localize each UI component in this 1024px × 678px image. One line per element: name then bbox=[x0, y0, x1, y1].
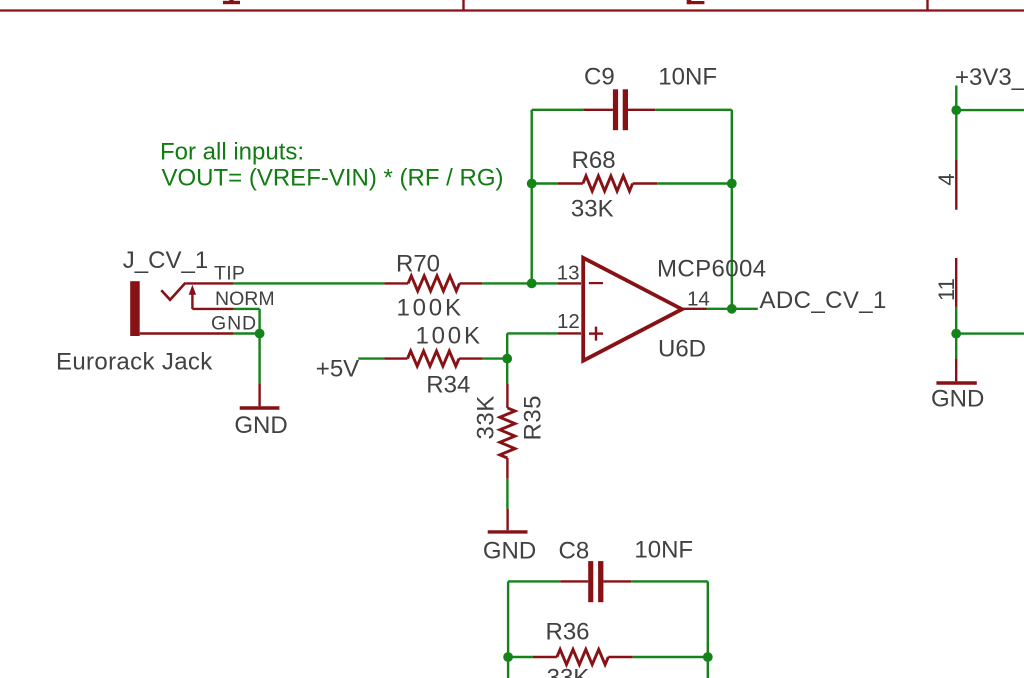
svg-text:12: 12 bbox=[557, 310, 580, 333]
resistor R35 top lead bbox=[506, 384, 508, 408]
wire to op-amp plus input bbox=[507, 332, 557, 334]
jack J_CV_1 norm arrow bbox=[189, 285, 196, 309]
op-amp pin 13 stub bbox=[557, 282, 581, 284]
sheet frame column divider tick 2 bbox=[926, 0, 928, 11]
svg-text:GND: GND bbox=[483, 538, 536, 565]
resistor R34 right lead bbox=[459, 357, 482, 359]
sheet frame column number 1 bbox=[223, 0, 240, 4]
resistor R68 right lead bbox=[633, 182, 658, 184]
resistor R35 bbox=[500, 408, 515, 458]
svg-text:For all inputs:: For all inputs: bbox=[160, 138, 304, 165]
wire C8 row right bbox=[631, 580, 708, 582]
junction node K bbox=[951, 329, 961, 339]
wire jack GND net bbox=[233, 332, 260, 334]
resistor R35 bottom lead bbox=[506, 458, 508, 479]
resistor R70 left lead bbox=[384, 282, 408, 284]
wire +3V3 vertical bbox=[955, 86, 957, 160]
svg-text:33K: 33K bbox=[473, 395, 500, 439]
svg-text:4: 4 bbox=[934, 173, 959, 185]
op-amp non-inverting input plus symbol bbox=[589, 327, 603, 341]
svg-text:R34: R34 bbox=[426, 371, 470, 398]
wire TIP net bbox=[233, 282, 384, 284]
svg-text:R70: R70 bbox=[396, 251, 440, 278]
svg-text:VOUT= (VREF-VIN) * (RF / RG): VOUT= (VREF-VIN) * (RF / RG) bbox=[162, 164, 504, 191]
junction node D bbox=[727, 304, 737, 314]
resistor R34 left lead bbox=[384, 357, 407, 359]
svg-text:NORM: NORM bbox=[215, 288, 275, 310]
IC power pin 4 bbox=[955, 160, 957, 210]
wire R34 to node F bbox=[482, 357, 507, 359]
junction node E bbox=[255, 329, 265, 339]
wire node E down bbox=[258, 334, 260, 384]
wire right vertical of second loop bbox=[707, 581, 709, 678]
wire +5V net bbox=[358, 357, 384, 359]
ground GND3 stub bbox=[955, 359, 957, 382]
svg-text:Eurorack Jack: Eurorack Jack bbox=[56, 349, 213, 376]
svg-text:R36: R36 bbox=[546, 619, 590, 646]
svg-text:10NF: 10NF bbox=[634, 537, 693, 564]
wire right vertical of feedback loop bbox=[731, 110, 733, 309]
op-amp pin 12 stub bbox=[557, 332, 581, 334]
ground GND1 bar bbox=[240, 406, 280, 409]
wire R68 row right bbox=[657, 182, 732, 184]
svg-text:+5V: +5V bbox=[316, 355, 359, 382]
wire node K down bbox=[955, 334, 957, 359]
ground GND3 bar bbox=[936, 381, 976, 384]
resistor R36 left lead bbox=[533, 656, 557, 658]
junction node F bbox=[502, 354, 512, 364]
wire C9 row right bbox=[655, 109, 732, 111]
junction node B bbox=[527, 179, 537, 189]
wire node K horizontal bbox=[956, 332, 1024, 334]
svg-text:+3V3_: +3V3_ bbox=[955, 64, 1024, 91]
sheet frame column number 2 bbox=[687, 0, 705, 4]
svg-text:MCP6004: MCP6004 bbox=[657, 256, 767, 283]
wire R68 row left bbox=[532, 182, 558, 184]
ground GND2 stub bbox=[506, 509, 508, 531]
resistor R36 bbox=[557, 649, 608, 664]
jack pin NORM bbox=[192, 308, 233, 310]
op-amp pin 14 stub bbox=[682, 308, 707, 310]
svg-text:10NF: 10NF bbox=[658, 63, 717, 90]
junction node A bbox=[527, 279, 537, 289]
svg-text:ADC_CV_1: ADC_CV_1 bbox=[760, 287, 887, 314]
capacitor C8 left lead bbox=[560, 580, 588, 582]
capacitor C9 left lead bbox=[583, 109, 613, 111]
wire node F up bbox=[506, 333, 508, 358]
svg-text:33K: 33K bbox=[571, 195, 614, 222]
wire left vertical of second loop bbox=[507, 581, 509, 678]
jack pin GND bbox=[140, 332, 233, 334]
jack pin TIP bbox=[185, 282, 233, 284]
resistor R70 bbox=[408, 276, 459, 291]
svg-text:R35: R35 bbox=[520, 395, 547, 441]
wire node F down bbox=[506, 359, 508, 384]
op-amp U6D triangle bbox=[583, 258, 682, 361]
resistor R68 left lead bbox=[558, 182, 583, 184]
wire NORM net vertical bbox=[258, 309, 260, 334]
resistor R34 bbox=[408, 351, 460, 366]
wire R35 to GND2 bbox=[506, 479, 508, 509]
svg-text:33K: 33K bbox=[547, 665, 590, 678]
resistor R36 right lead bbox=[608, 656, 632, 658]
svg-text:100K: 100K bbox=[397, 295, 464, 322]
wire R36 row left bbox=[508, 656, 533, 658]
junction node H bbox=[703, 652, 713, 662]
sheet frame column divider tick 1 bbox=[462, 0, 464, 11]
wire NORM net horizontal bbox=[233, 308, 260, 310]
ground GND1 stub bbox=[258, 384, 260, 407]
svg-text:14: 14 bbox=[687, 287, 710, 310]
svg-text:13: 13 bbox=[557, 262, 580, 285]
svg-text:TIP: TIP bbox=[214, 263, 245, 285]
junction node C bbox=[727, 179, 737, 189]
wire C8 row left bbox=[508, 580, 560, 582]
junction node J bbox=[951, 105, 961, 115]
junction node G bbox=[503, 652, 513, 662]
wire op-amp output bbox=[707, 308, 758, 310]
svg-text:U6D: U6D bbox=[658, 335, 706, 362]
svg-text:J_CV_1: J_CV_1 bbox=[123, 247, 208, 274]
svg-text:100K: 100K bbox=[416, 323, 483, 350]
wire R36 row right bbox=[633, 656, 708, 658]
sheet frame border line bbox=[0, 9, 1024, 11]
wire pin 11 to node K bbox=[955, 307, 957, 334]
jack J_CV_1 tip contact bbox=[161, 283, 185, 300]
wire +3V3 horizontal bbox=[956, 109, 1024, 111]
capacitor C8 bbox=[588, 561, 603, 602]
IC ground pin 11 bbox=[955, 258, 957, 307]
svg-text:GND: GND bbox=[234, 412, 287, 439]
capacitor C9 right lead bbox=[628, 109, 655, 111]
jack J_CV_1 body bar bbox=[130, 281, 140, 336]
resistor R68 bbox=[583, 176, 633, 191]
wire left vertical of feedback loop bbox=[531, 110, 533, 284]
svg-text:C8: C8 bbox=[559, 538, 590, 565]
resistor R70 right lead bbox=[460, 282, 483, 284]
ground GND2 bar bbox=[488, 530, 528, 533]
capacitor C8 right lead bbox=[603, 580, 631, 582]
capacitor C9 bbox=[613, 89, 628, 130]
wire R70 to node A bbox=[482, 282, 557, 284]
svg-text:GND: GND bbox=[211, 312, 257, 334]
svg-text:11: 11 bbox=[934, 278, 959, 301]
svg-text:R68: R68 bbox=[572, 147, 616, 174]
svg-text:C9: C9 bbox=[584, 64, 615, 91]
wire C9 row left bbox=[532, 109, 584, 111]
svg-text:GND: GND bbox=[931, 386, 984, 413]
op-amp inverting input minus symbol bbox=[589, 282, 603, 284]
